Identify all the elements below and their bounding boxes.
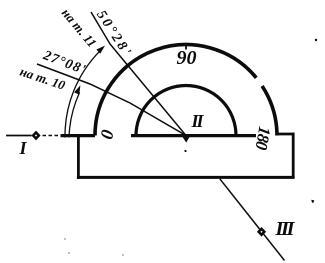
center index notch of protractor [183,137,190,143]
protractor inner arc [136,86,236,136]
ray II to point 11 (50deg28') [91,12,186,136]
angle sweep arc to ray 10 (r=117) [69,92,80,137]
svg-text:I: I [19,138,28,158]
base right edge [292,133,295,179]
protractor outer arc (right piece, 33.3deg to 0deg) [262,86,277,136]
station point I diamond [31,131,40,141]
protractor straight edge, main segment [131,134,256,137]
speck below center [184,150,186,152]
base bottom edge [77,176,295,179]
scan speck top right [315,39,317,41]
scan speck near right edge [311,200,314,204]
90-degree tick mark [185,45,187,50]
base left edge [77,134,80,179]
faint specks bottom [64,238,66,240]
line I-II (solid part) [6,135,32,137]
svg-text:III: III [275,218,296,240]
station point III diamond [257,227,266,237]
svg-text:на т. 11: на т. 11 [59,5,100,50]
line II-III [220,179,285,261]
protractor straight edge, left segment [61,134,96,137]
svg-text:180: 180 [251,125,274,152]
svg-text:0: 0 [96,128,118,141]
base right step [277,133,295,136]
line I-II (dotted part) [43,135,65,137]
arrowhead on sweep arc to ray 10 [74,85,80,94]
angle sweep arc to ray 11 (r=121) [65,51,100,138]
arrowhead on sweep arc to ray 11 [96,46,105,54]
svg-text:II: II [191,111,205,131]
ray II to point 10 (27deg08') [37,64,186,136]
svg-text:50°28': 50°28' [93,8,134,61]
svg-text:90: 90 [177,47,197,69]
protractor outer arc (left piece, 180deg to 39.5deg) [95,45,256,136]
